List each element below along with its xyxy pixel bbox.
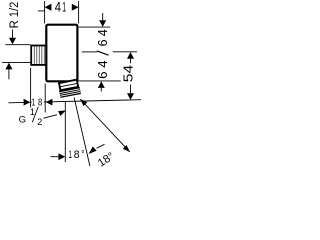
- dim 64/64 lower stem: [100, 88, 102, 92]
- dim 41 right arrow: [72, 4, 79, 11]
- thread band: [59, 87, 81, 98]
- dim 41 left tail: [38, 10, 45, 12]
- svg-text:2: 2: [37, 117, 42, 127]
- collar inner line: [60, 83, 77, 86]
- dim 41 left arrow: [45, 4, 52, 11]
- svg-text:1: 1: [69, 149, 72, 161]
- arc segment toward second 18deg text: [97, 144, 105, 148]
- svg-text:6 4: 6 4: [96, 29, 110, 46]
- dim 64/64 slash: [97, 51, 109, 55]
- dim 41 left extension line: [44, 1, 46, 23]
- svg-text:1: 1: [30, 107, 35, 117]
- fan line B (18 deg): [74, 98, 90, 167]
- dim 54 upper stem: [130, 59, 132, 64]
- first 18deg right arrow: [58, 153, 65, 160]
- dim 18 right extension line: [44, 84, 46, 113]
- dim 41 right extension line: [78, 1, 80, 23]
- dim 18 right arrow: [46, 99, 53, 106]
- dim 18 left extension line: [30, 68, 32, 108]
- dim 18 text backing: [32, 96, 44, 105]
- arrowhead at line B end: [89, 146, 97, 154]
- dim 64/64 lower extension line: [76, 80, 121, 82]
- svg-text:G: G: [19, 114, 26, 125]
- R 1/2 lower stem: [8, 69, 10, 79]
- svg-text:54: 54: [120, 65, 135, 82]
- nozzle group (tilted outlet): [58, 79, 81, 97]
- datum line at outlet level: [8, 100, 141, 103]
- collar: [59, 80, 78, 91]
- dim 18 left arrow: [24, 99, 31, 106]
- svg-text:°: °: [81, 149, 84, 161]
- svg-text:R 1/2: R 1/2: [7, 2, 21, 29]
- svg-text:8: 8: [38, 96, 42, 108]
- svg-text:8: 8: [74, 149, 80, 161]
- dim 64/64 upper arrow (down): [99, 20, 106, 27]
- dim 54 lower stem: [130, 85, 132, 94]
- body housing: [46, 25, 77, 82]
- fan leader C (45 deg): [80, 99, 130, 152]
- R 1/2 upper stem: [12, 30, 14, 39]
- dim 54 lower arrow (down): [127, 93, 134, 100]
- nub thread hatch: [34, 47, 44, 64]
- G 1/2 leader line: [44, 115, 58, 119]
- svg-text:4: 4: [55, 0, 62, 15]
- dim 64/64 upper stem: [102, 13, 104, 20]
- R 1/2 lower arrow (up): [5, 63, 12, 70]
- fan line A (vertical): [64, 101, 66, 162]
- svg-text:1: 1: [62, 0, 66, 15]
- arrow on C upper: [80, 99, 87, 106]
- dim 64/64 lower arrow (up): [98, 81, 105, 88]
- dim 54 upper extension line: [82, 51, 97, 53]
- R 1/2 upper extension line: [5, 44, 30, 46]
- G 1/2 leader arrow: [58, 110, 66, 116]
- R 1/2 upper arrow (down): [9, 38, 16, 45]
- R 1/2 lower extension line: [2, 61, 30, 63]
- dim 54 upper arrow (up): [127, 52, 134, 59]
- svg-text:6 4: 6 4: [96, 60, 110, 79]
- nub R 1/2 threaded inlet: [31, 46, 46, 65]
- dim line of first 18deg with right arrow at line A: [51, 156, 59, 158]
- arrow on C lower: [123, 145, 130, 152]
- dim 64/64 upper extension line: [79, 26, 110, 28]
